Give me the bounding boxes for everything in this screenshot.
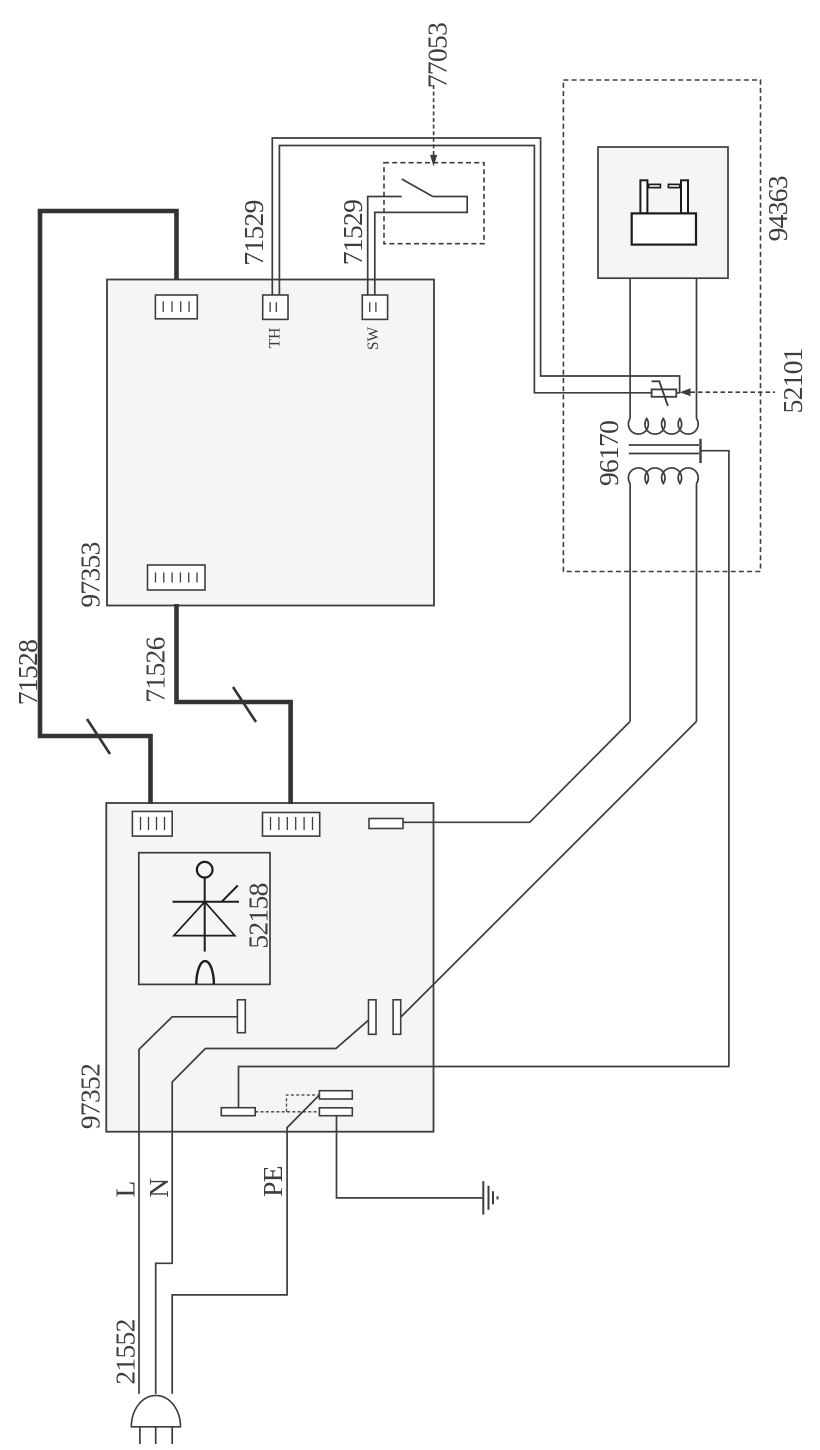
svg-text:21552: 21552 xyxy=(110,1319,141,1384)
svg-text:77053: 77053 xyxy=(422,23,453,88)
svg-text:SW: SW xyxy=(365,327,382,351)
svg-text:71526: 71526 xyxy=(140,637,171,702)
svg-text:L: L xyxy=(109,1181,140,1197)
svg-text:97352: 97352 xyxy=(75,1064,106,1129)
svg-text:71529: 71529 xyxy=(337,200,368,265)
svg-text:52158: 52158 xyxy=(242,883,273,948)
svg-text:96170: 96170 xyxy=(593,421,624,486)
svg-text:52101: 52101 xyxy=(777,348,808,413)
svg-text:TH: TH xyxy=(266,328,283,349)
svg-text:94363: 94363 xyxy=(762,176,793,241)
svg-text:71529: 71529 xyxy=(238,200,269,265)
svg-text:PE: PE xyxy=(257,1166,288,1197)
svg-text:71528: 71528 xyxy=(12,640,43,705)
svg-text:97353: 97353 xyxy=(75,542,106,607)
svg-text:N: N xyxy=(143,1178,174,1198)
